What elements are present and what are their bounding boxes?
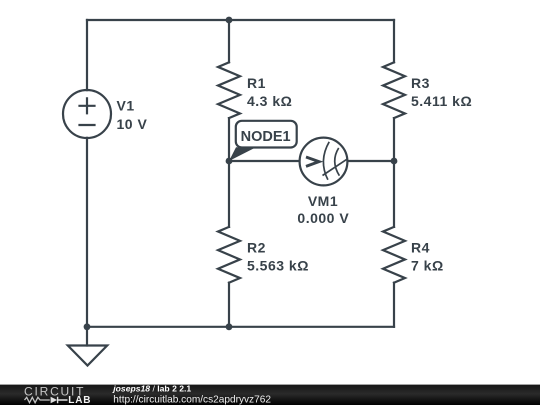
junction dot right mid <box>391 158 398 165</box>
wire R1 branch top lead <box>228 20 230 62</box>
voltmeter VM1 body <box>300 138 348 186</box>
wire R3 branch top lead <box>393 20 395 62</box>
svg-text:LAB: LAB <box>68 395 91 405</box>
svg-text:VM1: VM1 <box>308 193 338 209</box>
NODE1 callout box <box>236 121 297 148</box>
resistor R3 <box>383 62 405 118</box>
svg-text:http://circuitlab.com/cs2apdry: http://circuitlab.com/cs2apdryvz762 <box>113 394 271 405</box>
junction dot NODE1 <box>226 158 233 165</box>
wire R3 bottom lead to right junction <box>393 118 395 227</box>
ground stem <box>86 327 88 346</box>
svg-text:joseps18 / lab 2 2.1: joseps18 / lab 2 2.1 <box>112 384 191 394</box>
wire left top (V1 positive lead) <box>86 20 88 90</box>
svg-text:0.000 V: 0.000 V <box>297 210 349 226</box>
svg-text:5.563 kΩ: 5.563 kΩ <box>247 258 309 274</box>
resistor R1 <box>218 62 240 118</box>
wire NODE1 to voltmeter <box>229 160 300 162</box>
svg-text:7 kΩ: 7 kΩ <box>411 258 444 274</box>
svg-text:5.411 kΩ: 5.411 kΩ <box>411 93 472 109</box>
wire NODE1 to R2 <box>228 161 230 227</box>
junction dot bottom left <box>84 323 91 330</box>
svg-text:R4: R4 <box>411 240 430 256</box>
VM1 polarity mark <box>306 157 319 166</box>
wire bottom horizontal <box>87 326 394 328</box>
VM1 meter arc right <box>335 148 340 176</box>
V1 plus sign <box>80 98 95 113</box>
wire R2 bottom lead <box>228 283 230 327</box>
VM1 meter needle <box>323 159 347 175</box>
wire R1 bottom lead to NODE1 <box>228 118 230 161</box>
resistor R2 <box>218 227 240 283</box>
svg-text:R3: R3 <box>411 75 430 91</box>
wire voltmeter to right branch <box>347 160 394 162</box>
svg-text:R1: R1 <box>247 75 266 91</box>
junction dot top <box>226 17 233 24</box>
VM1 meter arc left <box>323 142 329 180</box>
svg-text:10 V: 10 V <box>117 116 148 132</box>
svg-text:V1: V1 <box>117 98 135 114</box>
junction dot bottom mid <box>226 323 233 330</box>
NODE1 callout pointer <box>229 147 256 161</box>
ground <box>68 346 107 366</box>
svg-text:R2: R2 <box>247 240 266 256</box>
CircuitLab logo diode <box>51 397 58 404</box>
V1 minus sign <box>80 124 95 126</box>
svg-text:4.3 kΩ: 4.3 kΩ <box>247 93 292 109</box>
CircuitLab logo diode bar and wire <box>58 397 68 404</box>
footer bar <box>0 385 540 405</box>
wire R4 bottom lead <box>393 283 395 327</box>
svg-text:NODE1: NODE1 <box>241 129 291 145</box>
wire left bottom (V1 negative lead) <box>86 138 88 327</box>
wire top horizontal <box>87 19 394 21</box>
CircuitLab logo resistor squiggle <box>25 397 50 402</box>
voltage source V1 <box>63 90 111 138</box>
resistor R4 <box>383 227 405 283</box>
